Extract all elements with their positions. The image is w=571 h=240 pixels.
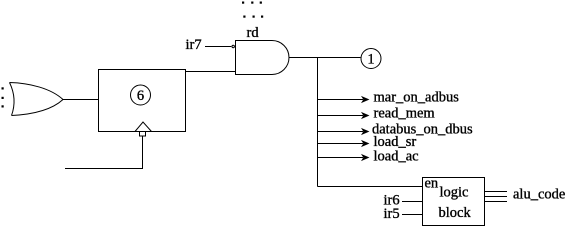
wire load_ac xyxy=(318,154,370,161)
continuation dots above and-gate xyxy=(242,2,263,18)
and-gate rd xyxy=(236,41,289,75)
clock square pin xyxy=(140,132,146,137)
state number 6 xyxy=(131,85,151,105)
wire en xyxy=(318,186,423,188)
wire read_mem xyxy=(318,112,370,119)
wire ir6 xyxy=(402,201,423,203)
wire register to and-gate xyxy=(186,71,236,73)
wire or-gate to register xyxy=(63,99,99,101)
control bus vertical wire xyxy=(317,58,319,187)
logic block U2 xyxy=(423,178,485,226)
node 1 xyxy=(361,49,381,69)
clock triangle xyxy=(135,122,152,132)
register block (state 6) xyxy=(99,70,186,132)
svg-text:read_mem: read_mem xyxy=(374,106,436,122)
svg-text:en: en xyxy=(425,176,439,192)
svg-text:1: 1 xyxy=(367,51,374,67)
wire load_sr xyxy=(318,140,370,147)
svg-text:alu_code: alu_code xyxy=(513,187,565,203)
or-gate G1 xyxy=(10,83,64,116)
wire mar_on_adbus xyxy=(318,96,370,103)
svg-text:load_ac: load_ac xyxy=(374,149,419,165)
svg-text:ir7: ir7 xyxy=(186,37,202,53)
svg-text:block: block xyxy=(439,205,472,221)
alu_code bus wires xyxy=(485,192,508,202)
clock wire xyxy=(65,136,143,169)
svg-text:logic: logic xyxy=(440,185,469,201)
or-gate input continuation dots xyxy=(2,87,4,107)
wire ir7 xyxy=(205,46,231,48)
svg-text:rd: rd xyxy=(247,25,260,41)
inverter bubble xyxy=(232,45,234,47)
svg-text:ir5: ir5 xyxy=(384,206,400,222)
wire databus_on_dbus xyxy=(318,128,370,135)
svg-text:6: 6 xyxy=(137,88,144,104)
wire and-gate to node 1 xyxy=(289,57,361,59)
wire ir5 xyxy=(402,214,423,216)
svg-text:mar_on_adbus: mar_on_adbus xyxy=(374,90,460,106)
